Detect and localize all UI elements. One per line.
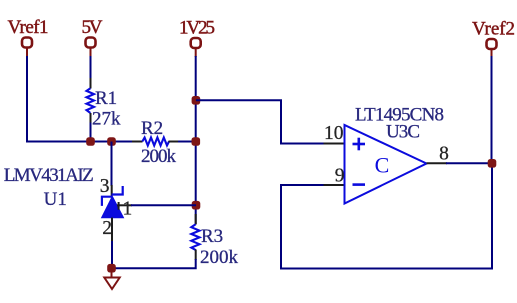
junction dot ground node — [107, 264, 116, 273]
port Vref1 circle — [22, 38, 32, 48]
port 1V25 circle — [191, 38, 201, 48]
svg-text:2: 2 — [102, 218, 112, 239]
svg-text:R1: R1 — [95, 88, 117, 109]
wire output to Vref2 — [446, 162, 492, 164]
wire R1 bottom to bus — [90, 123, 92, 142]
svg-text:U3C: U3C — [386, 122, 420, 143]
svg-text:LMV431AIZ: LMV431AIZ — [4, 165, 94, 186]
wire U1 pin3 vertical — [111, 142, 113, 187]
wire R3 bottom to ground row — [112, 259, 196, 268]
svg-text:3: 3 — [100, 176, 110, 197]
pin U1 pin1 tick — [118, 202, 120, 210]
wire 1V25 vertical — [195, 56, 197, 224]
wire upper feed to op-amp — [196, 100, 324, 143]
shunt regulator U1 triangle — [102, 197, 123, 218]
op-amp U3C triangle — [345, 125, 427, 204]
svg-text:C: C — [375, 153, 390, 178]
wire R2 right to 1V25 line — [178, 141, 196, 143]
svg-text:10: 10 — [324, 123, 344, 144]
svg-text:U1: U1 — [44, 189, 67, 210]
svg-text:200k: 200k — [141, 146, 177, 167]
pin R1 bottom stub — [90, 113, 92, 124]
wire bus horizontal to R2 — [26, 141, 142, 143]
pin U3C pin10 stub — [324, 143, 345, 145]
svg-text:Vref2: Vref2 — [472, 19, 515, 40]
resistor R1 zigzag — [87, 88, 95, 113]
svg-text:9: 9 — [335, 166, 345, 187]
svg-text:1V25: 1V25 — [179, 18, 215, 39]
pin U1 pin3 stub — [111, 185, 113, 196]
pin R3 bottom stub — [195, 250, 197, 261]
junction dot 1V25 at R2 — [192, 137, 201, 146]
pin U3C pin8 output stub — [427, 162, 448, 164]
svg-text:200k: 200k — [200, 247, 239, 268]
svg-text:8: 8 — [439, 144, 449, 165]
shunt regulator U1 cathode bar right half with up hook — [112, 186, 123, 195]
junction dot output node — [488, 159, 497, 168]
port Vref2 pin stub — [491, 49, 493, 58]
port Vref2 circle — [487, 39, 497, 49]
port Vref1 pin stub — [26, 48, 28, 58]
svg-text:Vref1: Vref1 — [8, 17, 49, 38]
ground symbol — [104, 278, 119, 290]
pin U1 pin1 stub — [117, 204, 132, 206]
svg-text:27k: 27k — [92, 109, 121, 130]
pin U3C pin9 stub — [324, 184, 345, 186]
wire 5V vertical to R1 — [90, 56, 92, 79]
ground stub — [111, 268, 113, 278]
resistor R2 zigzag — [142, 138, 169, 146]
svg-text:R3: R3 — [201, 226, 223, 247]
junction dot bus/U1 pin3 — [107, 137, 116, 146]
port 5V pin stub — [90, 48, 92, 58]
svg-text:1: 1 — [123, 199, 133, 220]
wire pin9 feedback — [281, 163, 492, 268]
port 5V circle — [86, 38, 96, 48]
pin R3 top stub — [195, 214, 197, 225]
svg-text:R2: R2 — [141, 118, 163, 139]
wire U1 pin1 to 1V25 line — [131, 204, 196, 206]
wire Vref1 vertical — [26, 56, 28, 142]
svg-text:5V: 5V — [82, 17, 103, 38]
junction dot 1V25 at U1 pin1 — [192, 201, 201, 210]
shunt regulator U1 cathode bar left half with down hook — [102, 197, 112, 206]
pin R2 right stub — [169, 141, 180, 143]
wire U1 pin2 to ground row — [111, 241, 113, 268]
junction dot 1V25 upper — [192, 96, 201, 105]
pin R2 left stub — [132, 141, 143, 143]
resistor R3 zigzag — [191, 224, 199, 250]
wire Vref2 vertical — [491, 56, 493, 163]
junction dot bus/R1 — [86, 137, 95, 146]
op-amp minus sign — [353, 183, 366, 186]
op-amp plus sign — [353, 143, 366, 146]
pin R1 top stub — [90, 78, 92, 89]
port 1V25 pin stub — [195, 48, 197, 57]
pin U1 pin2 stub — [111, 218, 113, 243]
